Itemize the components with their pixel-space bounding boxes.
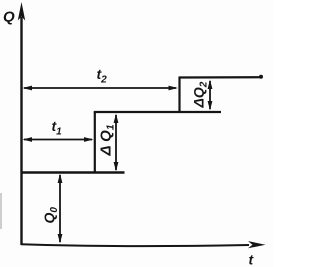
svg-text:t: t xyxy=(249,252,255,267)
axis t arrowhead xyxy=(248,241,266,248)
dimension t2 (double arrow) xyxy=(24,87,176,89)
node: end dot of level 2 xyxy=(259,75,263,79)
dimension dQ2 (double arrow) xyxy=(209,81,211,109)
svg-text:Q0: Q0 xyxy=(41,207,60,224)
wire: bottom step level segment xyxy=(21,171,125,173)
svg-text:t2: t2 xyxy=(97,66,108,86)
svg-text:ΔQ2: ΔQ2 xyxy=(191,81,210,108)
wire: level 1 segment xyxy=(94,111,221,113)
wire: riser 1 xyxy=(94,112,96,174)
dimension dQ1 (double arrow) xyxy=(115,115,117,170)
axis Q arrowhead xyxy=(18,2,25,21)
wire: level 2 segment xyxy=(179,76,262,79)
axis Q (vertical axis line) xyxy=(20,17,22,245)
wire: riser 2 xyxy=(178,77,180,113)
scan smudge left edge xyxy=(0,193,2,229)
dimension Q0 (double arrow) xyxy=(59,175,61,242)
axis t (horizontal axis line) xyxy=(21,244,249,246)
dimension t1 (double arrow) xyxy=(24,139,92,141)
svg-text:Q: Q xyxy=(3,9,15,26)
svg-text:Δ Q1: Δ Q1 xyxy=(98,124,117,156)
svg-text:t1: t1 xyxy=(52,118,63,138)
